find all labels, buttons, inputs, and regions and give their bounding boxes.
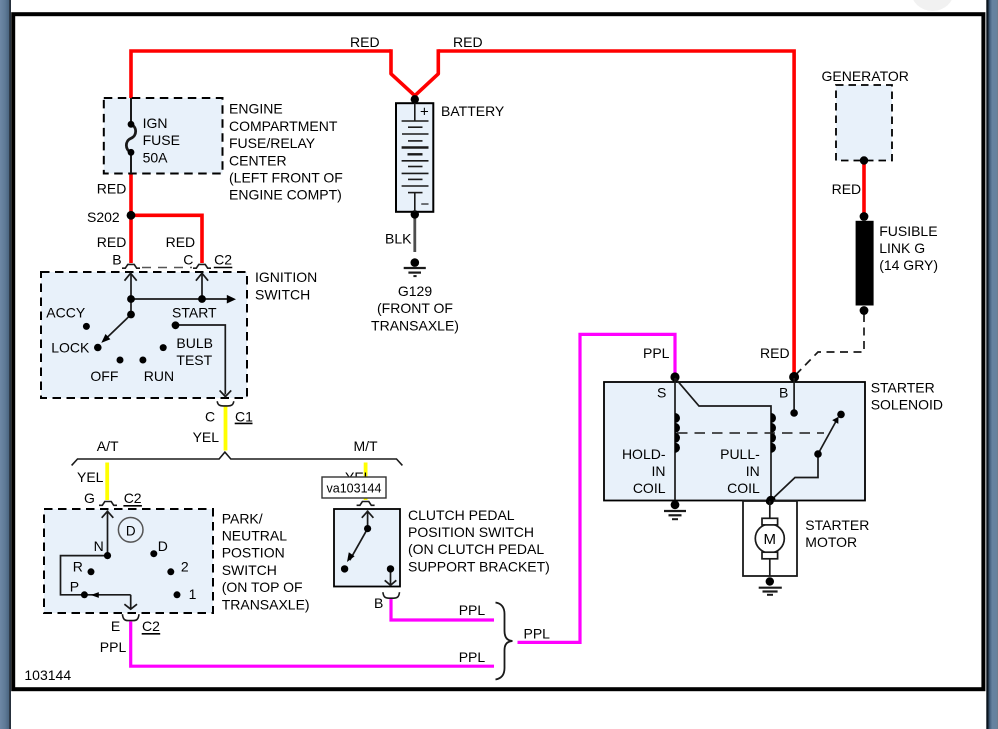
svg-text:NEUTRAL: NEUTRAL xyxy=(222,528,288,544)
svg-text:G129: G129 xyxy=(398,283,432,299)
node B solenoid xyxy=(789,372,799,382)
svg-text:FUSE: FUSE xyxy=(143,132,180,148)
solenoid contacts xyxy=(790,409,798,417)
svg-text:PPL: PPL xyxy=(643,345,670,361)
svg-text:CENTER: CENTER xyxy=(229,152,287,168)
clutch switch internals xyxy=(350,511,391,585)
starter motor box xyxy=(743,501,797,576)
generator box xyxy=(836,85,892,161)
wire YEL M/T branch xyxy=(364,463,368,501)
label fuse center block xyxy=(229,101,343,203)
svg-text:TRANSAXLE): TRANSAXLE) xyxy=(371,317,459,333)
svg-text:(LEFT FRONT OF: (LEFT FRONT OF xyxy=(229,170,343,186)
svg-text:RED: RED xyxy=(760,345,790,361)
wire YEL ignition C1 xyxy=(224,407,228,451)
svg-text:D: D xyxy=(126,523,136,538)
svg-text:POSTION: POSTION xyxy=(222,545,285,561)
svg-text:ENGINE COMPT): ENGINE COMPT) xyxy=(229,187,342,203)
svg-text:FUSIBLE: FUSIBLE xyxy=(879,223,937,239)
svg-text:1: 1 xyxy=(189,586,197,602)
svg-text:START: START xyxy=(172,304,217,320)
svg-text:BULB: BULB xyxy=(176,335,213,351)
pull-in coil xyxy=(771,413,776,453)
svg-text:C: C xyxy=(205,408,215,424)
connector C ignition xyxy=(193,264,211,268)
label STARTER MOTOR xyxy=(805,517,869,550)
connector B ignition xyxy=(122,264,140,268)
ground under starter motor xyxy=(759,577,782,595)
svg-text:RED: RED xyxy=(832,181,862,197)
connector B clutch xyxy=(383,592,400,598)
svg-text:(FRONT OF: (FRONT OF xyxy=(377,300,453,316)
svg-text:−: − xyxy=(421,196,430,213)
starter solenoid box xyxy=(604,382,865,501)
connector C1 xyxy=(217,401,234,406)
svg-text:LOCK: LOCK xyxy=(51,340,90,356)
svg-text:C2: C2 xyxy=(214,251,232,267)
starter motor M xyxy=(755,501,784,576)
svg-text:S202: S202 xyxy=(87,209,120,225)
svg-text:IN: IN xyxy=(746,463,760,479)
connector E park/neutral xyxy=(122,614,139,620)
ground under hold-in coil xyxy=(664,500,686,519)
svg-text:IGN: IGN xyxy=(143,115,168,131)
svg-text:MOTOR: MOTOR xyxy=(805,534,857,550)
svg-text:B: B xyxy=(374,595,383,611)
svg-text:50A: 50A xyxy=(143,149,169,165)
svg-text:C2: C2 xyxy=(142,618,160,634)
svg-text:POSITION SWITCH: POSITION SWITCH xyxy=(408,524,534,540)
dashed gray line between connectors xyxy=(142,267,192,269)
svg-text:GENERATOR: GENERATOR xyxy=(822,68,909,84)
wire PPL park E to brace xyxy=(131,622,494,667)
svg-text:(ON TOP OF: (ON TOP OF xyxy=(222,579,303,595)
svg-text:M/T: M/T xyxy=(354,438,379,454)
svg-text:LINK G: LINK G xyxy=(879,240,925,256)
svg-text:IGNITION: IGNITION xyxy=(255,269,317,285)
label BULB TEST xyxy=(176,335,213,368)
svg-text:(ON CLUTCH PEDAL: (ON CLUTCH PEDAL xyxy=(408,541,544,557)
svg-text:STARTER: STARTER xyxy=(871,380,935,396)
fuse box ENGINE COMPARTMENT FUSE/RELAY CENTER xyxy=(104,98,223,174)
svg-text:RED: RED xyxy=(350,34,380,50)
svg-text:PPL: PPL xyxy=(524,626,551,642)
park/neutral internals xyxy=(61,511,131,609)
splice S202 xyxy=(127,211,136,220)
label CLUTCH PEDAL POSITION SWITCH xyxy=(408,507,550,575)
branch brace A/T M/T xyxy=(72,452,403,465)
label FUSIBLE LINK G xyxy=(879,223,938,273)
dashed linkage line xyxy=(677,432,824,434)
tooltip va103144 xyxy=(322,477,386,498)
label STARTER SOLENOID xyxy=(871,380,943,413)
wire PPL brace to solenoid S xyxy=(518,334,676,642)
svg-text:SUPPORT BRACKET): SUPPORT BRACKET) xyxy=(408,558,550,574)
label IGN FUSE 50A xyxy=(143,115,180,165)
svg-text:A/T: A/T xyxy=(97,438,119,454)
svg-text:103144: 103144 xyxy=(24,667,71,683)
svg-text:RED: RED xyxy=(97,234,127,250)
svg-text:C: C xyxy=(183,251,193,267)
svg-text:+: + xyxy=(420,104,429,121)
svg-text:PPL: PPL xyxy=(100,639,127,655)
svg-text:RED: RED xyxy=(166,234,196,250)
svg-text:M: M xyxy=(764,531,777,548)
connector G park/neutral xyxy=(99,502,117,506)
solenoid internals xyxy=(675,378,837,500)
svg-text:YEL: YEL xyxy=(77,469,104,485)
svg-text:ENGINE: ENGINE xyxy=(229,101,283,117)
svg-text:COIL: COIL xyxy=(727,480,760,496)
svg-text:D: D xyxy=(158,538,168,554)
svg-text:CLUTCH PEDAL: CLUTCH PEDAL xyxy=(408,507,515,523)
svg-text:PPL: PPL xyxy=(459,649,486,665)
svg-text:BLK: BLK xyxy=(385,231,412,247)
label G129 FRONT OF TRANSAXLE xyxy=(371,283,459,333)
wire RED fuse to S202 to ignition xyxy=(131,174,202,264)
wire dashed fusible link to solenoid B xyxy=(795,314,865,376)
svg-text:COMPARTMENT: COMPARTMENT xyxy=(229,118,338,134)
park/neutral position switch box xyxy=(44,509,213,613)
svg-text:FUSE/RELAY: FUSE/RELAY xyxy=(229,135,316,151)
svg-text:SWITCH: SWITCH xyxy=(222,562,277,578)
svg-text:COIL: COIL xyxy=(633,480,666,496)
fuse IGN FUSE 50A xyxy=(126,98,135,174)
svg-text:PARK/: PARK/ xyxy=(222,510,263,526)
svg-text:C2: C2 xyxy=(124,490,142,506)
circled D indicator xyxy=(118,518,143,543)
svg-text:STARTER: STARTER xyxy=(805,517,869,533)
svg-text:E: E xyxy=(111,618,120,634)
svg-text:OFF: OFF xyxy=(90,368,118,384)
svg-text:N: N xyxy=(94,538,104,554)
svg-text:BATTERY: BATTERY xyxy=(441,103,505,119)
fusible link G xyxy=(856,221,874,306)
svg-text:RED: RED xyxy=(453,34,483,50)
clutch pedal position switch box xyxy=(334,509,400,587)
svg-text:PPL: PPL xyxy=(459,602,486,618)
svg-text:IN: IN xyxy=(652,463,666,479)
svg-text:(14 GRY): (14 GRY) xyxy=(879,257,938,273)
svg-text:SOLENOID: SOLENOID xyxy=(871,397,943,413)
svg-text:HOLD-: HOLD- xyxy=(622,446,666,462)
svg-text:YEL: YEL xyxy=(193,429,220,445)
svg-text:P: P xyxy=(70,578,79,594)
battery xyxy=(396,95,433,219)
hold-in coil xyxy=(675,413,680,453)
wire YEL A/T branch xyxy=(105,463,109,501)
svg-text:R: R xyxy=(73,559,83,575)
label HOLD-IN COIL xyxy=(622,446,666,496)
svg-text:B: B xyxy=(779,385,788,401)
svg-text:PULL-: PULL- xyxy=(720,446,760,462)
svg-text:RUN: RUN xyxy=(144,368,174,384)
ignition switch internals xyxy=(105,274,228,395)
wire PPL clutch B to brace xyxy=(391,598,494,620)
svg-text:B: B xyxy=(112,251,121,267)
svg-text:va103144: va103144 xyxy=(327,482,382,496)
ground G129 xyxy=(404,258,426,276)
svg-text:G: G xyxy=(84,490,95,506)
label PARK/NEUTRAL POSTION SWITCH xyxy=(222,510,310,612)
svg-text:S: S xyxy=(657,385,666,401)
label PULL-IN COIL xyxy=(720,446,760,496)
wire RED generator to fusible link xyxy=(862,161,866,217)
node S solenoid xyxy=(670,372,679,381)
wire RED battery feed top xyxy=(131,49,794,375)
svg-text:TEST: TEST xyxy=(176,352,212,368)
brace PPL join xyxy=(496,603,513,680)
wire BLK battery to ground xyxy=(413,214,416,252)
svg-text:SWITCH: SWITCH xyxy=(255,286,310,302)
label IGNITION SWITCH xyxy=(255,269,317,302)
svg-text:RED: RED xyxy=(97,181,127,197)
svg-text:2: 2 xyxy=(181,559,189,575)
connector clutch top xyxy=(357,502,375,506)
svg-text:C1: C1 xyxy=(235,408,253,424)
svg-text:TRANSAXLE): TRANSAXLE) xyxy=(222,596,310,612)
ignition switch box xyxy=(41,272,247,398)
svg-text:ACCY: ACCY xyxy=(46,304,86,320)
